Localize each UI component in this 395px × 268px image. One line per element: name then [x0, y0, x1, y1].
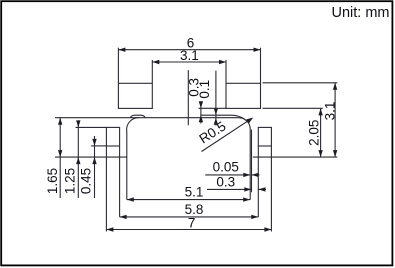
pad P4 side-right: [258, 127, 271, 146]
ext line right pad-top: [263, 82, 338, 84]
ext line right pad-bottom: [263, 107, 323, 109]
ext line right datum: [253, 156, 337, 158]
lever top line 0.1 above body: [200, 115, 247, 122]
leader R0.5: [202, 119, 252, 152]
body right edge: [249, 129, 251, 200]
ext line pad bottoms center: [199, 107, 227, 109]
svg-text:7: 7: [188, 215, 196, 230]
svg-text:3.1: 3.1: [180, 48, 199, 63]
ext line 7 left: [105, 146, 107, 232]
ext line pad L inner top: [151, 60, 153, 83]
dim 0.45 line: [94, 136, 96, 198]
pad P1 top-left: [118, 83, 152, 108]
dim 0.3 center line: [200, 102, 202, 124]
svg-text:3.1: 3.1: [323, 102, 338, 121]
body corner arc right R0.5: [239, 118, 250, 129]
svg-text:0.3: 0.3: [216, 174, 235, 189]
ext line center-left vertical: [187, 70, 189, 125]
dim 6 line: [118, 49, 260, 51]
body top edge: [55, 117, 239, 119]
dim 5.1 line: [127, 199, 250, 201]
bump tab on top edge: [131, 115, 146, 117]
dim 0.05 line: [205, 174, 250, 176]
ext line left pad-bottom: [91, 145, 106, 147]
body right inner line (0.05 offset): [251, 130, 253, 193]
dim 2.05 line: [320, 108, 322, 157]
pad P3 side-left: [106, 127, 119, 146]
ext line left datum: [55, 156, 127, 158]
svg-text:1.65: 1.65: [45, 168, 60, 194]
dim 1.65 line: [59, 118, 61, 198]
ext line pad R inner top: [225, 60, 227, 83]
dim 3.1 top line: [152, 61, 226, 63]
ext line 5.8/0.3 right: [257, 146, 259, 217]
svg-text:0.05: 0.05: [213, 160, 239, 175]
ext line pad L outer top: [117, 48, 119, 84]
dim 0.3 right line: [207, 188, 251, 190]
svg-text:2.05: 2.05: [307, 120, 322, 146]
ext line left pad-top: [76, 126, 107, 128]
dim 3.1 right line: [334, 83, 336, 157]
dim 7 line: [106, 229, 271, 231]
ext line 5.8 left: [119, 146, 121, 217]
svg-text:1.25: 1.25: [63, 168, 78, 194]
svg-text:0.1: 0.1: [197, 80, 212, 99]
ext line 7 right: [270, 146, 272, 232]
svg-text:Unit: mm: Unit: mm: [332, 5, 390, 21]
dim 0.1 center line: [215, 71, 217, 126]
svg-text:5.1: 5.1: [185, 185, 204, 200]
dim 1.25 line: [77, 120, 79, 198]
svg-text:0.45: 0.45: [79, 168, 94, 194]
dim 5.8 line: [120, 216, 259, 218]
body corner arc left R0.5: [127, 118, 139, 132]
body left edge: [126, 132, 128, 200]
ext line pad R outer top: [260, 48, 262, 84]
pad P2 top-right: [226, 83, 261, 108]
